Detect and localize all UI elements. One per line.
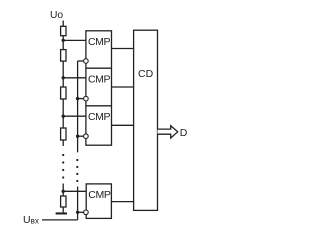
wire tap3 to CMP3 input xyxy=(63,115,86,117)
pin circle CMP1 inverting input xyxy=(84,59,89,64)
wire R1 to R2 xyxy=(62,36,64,50)
wire R3 to R4 xyxy=(62,99,64,128)
wire CMP2 output to CD xyxy=(112,86,134,88)
pin circle CMP4 inverting input xyxy=(84,210,89,215)
comparator U4 box xyxy=(86,184,111,219)
svg-text:D: D xyxy=(180,127,188,139)
wire R5 to ground xyxy=(62,207,64,212)
pin circle CMP3 inverting input xyxy=(84,134,89,139)
wire bus to CMP1 inverting input xyxy=(78,60,86,62)
wire CMP3 output to CD xyxy=(112,124,134,126)
wire below R4 xyxy=(62,140,64,146)
pin circle CMP2 inverting input xyxy=(84,96,89,101)
resistor R3 xyxy=(61,87,66,99)
ladder continuation dots xyxy=(62,154,64,179)
resistor R1 xyxy=(61,26,66,35)
wire tap4 to CMP4 input xyxy=(63,190,86,192)
wire Uvx bottom xyxy=(42,219,78,221)
svg-text:CMP: CMP xyxy=(88,36,111,48)
svg-text:CMP: CMP xyxy=(88,189,111,201)
wire bus to CMP2 inverting input xyxy=(78,98,86,100)
wire above R5 xyxy=(62,184,64,197)
wire bus to CMP4 inverting input xyxy=(78,211,86,213)
node bus bottom junction xyxy=(76,211,79,214)
node tap4 junction xyxy=(62,190,65,193)
node bus junction at CMP2 xyxy=(76,97,79,100)
ground xyxy=(56,212,67,214)
wire input bus upper segment xyxy=(77,61,79,152)
comparator U2-U3 divider xyxy=(86,105,112,107)
comparator U1-U2 divider xyxy=(86,67,112,69)
wire bus to CMP3 inverting input xyxy=(78,135,86,137)
node tap3 junction xyxy=(62,115,65,118)
wire input bus riser xyxy=(77,212,79,220)
input bus continuation dots xyxy=(76,159,78,182)
wire CMP1 output to CD xyxy=(112,48,134,50)
comparator stack outline xyxy=(86,31,112,145)
output bus arrow xyxy=(158,126,178,138)
node tap1 junction xyxy=(62,39,65,42)
svg-text:CMP: CMP xyxy=(88,74,111,86)
encoder CD box xyxy=(134,30,158,210)
resistor R5 xyxy=(61,196,66,207)
wire tap1 to CMP1 input xyxy=(63,39,86,41)
node bus junction at CMP3 xyxy=(76,135,79,138)
resistor R2 xyxy=(61,50,66,62)
wire CMP4 output to CD xyxy=(111,201,133,203)
node tap2 junction xyxy=(62,76,65,79)
svg-text:Uвх: Uвх xyxy=(23,214,39,226)
wire R2 to R3 xyxy=(62,61,64,87)
svg-text:CMP: CMP xyxy=(88,111,111,123)
svg-text:CD: CD xyxy=(138,68,154,80)
wire Uo to R1 xyxy=(62,21,64,27)
svg-text:Uo: Uo xyxy=(50,10,63,21)
wire tap2 to CMP2 input xyxy=(63,77,86,79)
wire input bus lower segment xyxy=(77,187,79,213)
resistor R4 xyxy=(61,128,66,140)
